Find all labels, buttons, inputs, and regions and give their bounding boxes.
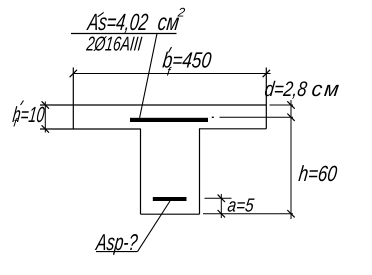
dimension line a=5 <box>220 194 222 218</box>
prime mark of h'f <box>21 101 24 106</box>
svg-text:см: см <box>310 78 340 101</box>
svg-text:d=2,8: d=2,8 <box>263 78 308 101</box>
subscript f of h'f <box>13 116 20 130</box>
leader line from As' label to top bar <box>140 34 157 118</box>
svg-text:As=4,02: As=4,02 <box>85 9 150 35</box>
svg-text:a=5: a=5 <box>226 196 255 217</box>
bottom reinforcement bar Asp <box>153 197 187 201</box>
tick bottom of h'f dimension <box>42 125 49 132</box>
svg-text:см: см <box>156 9 180 35</box>
web right edge <box>199 128 201 214</box>
label d=2,8 <box>263 78 308 101</box>
label Asp-? <box>94 229 140 255</box>
svg-text:h=60: h=60 <box>297 161 339 186</box>
underline of Asp label <box>96 251 138 253</box>
web left edge <box>140 129 142 215</box>
tick at flange top on right dimension <box>287 101 294 108</box>
tick right of b'f dimension <box>263 70 270 77</box>
dimension line b'f=450 <box>73 73 270 75</box>
label a=5 <box>226 196 255 217</box>
web bottom edge <box>141 213 200 215</box>
label b'f=450 <box>161 48 213 73</box>
tick top of h'f dimension <box>42 101 49 108</box>
extension line at bottom bar centerline for a dimension <box>205 197 232 199</box>
subscript f of b'f <box>166 65 173 79</box>
superscript 2 of cm2 <box>176 6 186 20</box>
svg-text:Asp-?: Asp-? <box>94 229 140 255</box>
flange bottom edge right <box>200 128 267 130</box>
label 2d16AIII <box>85 33 144 55</box>
tick top of a dimension <box>218 195 225 202</box>
prime mark of b'f <box>169 47 172 53</box>
flange left edge with extension to b'f dimension <box>72 68 74 130</box>
dimension line h'f=10 <box>44 102 46 133</box>
flange top right extension line <box>270 104 294 106</box>
centerline dot after top bar <box>212 116 214 118</box>
label cm units of d <box>310 78 340 101</box>
tick left of b'f dimension <box>70 70 77 77</box>
right vertical dimension line (d and h) <box>290 100 292 219</box>
tick at bar centerline on right dimension <box>287 114 294 121</box>
flange top edge (with left extension) <box>40 104 266 106</box>
svg-text:2Ø16AIII: 2Ø16AIII <box>85 33 144 55</box>
label cm2 units <box>156 9 180 35</box>
label h=60 <box>297 161 339 186</box>
extension line at web bottom to right dimension <box>203 213 293 215</box>
label As'=4,02 <box>85 9 150 35</box>
flange right edge with extension to b'f dimension <box>265 68 267 129</box>
tick bottom of a dimension <box>218 210 225 217</box>
svg-text:2: 2 <box>176 6 186 20</box>
flange bottom edge left (with left extension) <box>40 128 141 130</box>
leader line from Asp label to bottom bar <box>138 201 171 252</box>
label h'f=10 <box>11 102 46 127</box>
top reinforcement bar As' <box>130 118 208 122</box>
centerline dash from top bar to right dimension <box>220 116 294 118</box>
tick at web bottom on right dimension <box>287 210 294 217</box>
fraction bar of As' label <box>71 33 177 35</box>
prime mark of As' <box>98 12 104 16</box>
